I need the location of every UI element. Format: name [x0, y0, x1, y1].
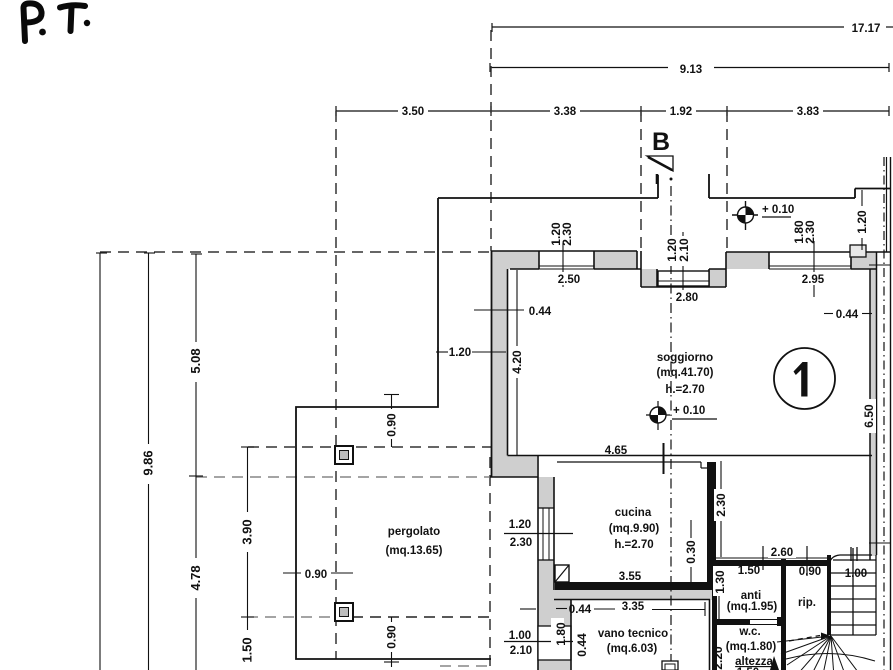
svg-text:1.80: 1.80 — [554, 622, 568, 646]
svg-text:+ 0.10: + 0.10 — [762, 204, 794, 216]
svg-text:0.90: 0.90 — [385, 413, 399, 437]
svg-text:B: B — [652, 128, 670, 156]
svg-text:(mq.13.65): (mq.13.65) — [386, 545, 443, 557]
svg-text:w.c.: w.c. — [738, 626, 760, 638]
svg-text:6.50: 6.50 — [862, 404, 876, 428]
svg-text:1.00: 1.00 — [509, 630, 531, 642]
svg-text:3.38: 3.38 — [554, 106, 577, 118]
svg-text:(mq.6.03): (mq.6.03) — [607, 643, 658, 655]
svg-text:1.50: 1.50 — [240, 637, 255, 662]
svg-text:9.86: 9.86 — [141, 450, 156, 475]
svg-text:soggiorno: soggiorno — [657, 352, 713, 364]
svg-text:(mq.1.95): (mq.1.95) — [727, 601, 778, 613]
svg-text:(mq.9.90): (mq.9.90) — [609, 523, 660, 535]
svg-text:1.50: 1.50 — [738, 565, 760, 577]
svg-text:+ 0.10: + 0.10 — [673, 405, 705, 417]
svg-text:2.10: 2.10 — [677, 238, 691, 262]
svg-text:rip.: rip. — [798, 597, 816, 609]
svg-text:cucina: cucina — [615, 507, 652, 519]
svg-text:0.44: 0.44 — [575, 633, 589, 657]
svg-text:2.60: 2.60 — [771, 547, 793, 559]
svg-text:1.20: 1.20 — [855, 210, 869, 234]
svg-text:3.55: 3.55 — [619, 571, 642, 583]
svg-text:2.50: 2.50 — [558, 274, 580, 286]
svg-text:3.83: 3.83 — [797, 106, 819, 118]
svg-text:17.17: 17.17 — [852, 23, 881, 35]
svg-text:(mq.41.70): (mq.41.70) — [657, 367, 714, 379]
svg-text:3.90: 3.90 — [240, 519, 255, 544]
svg-text:1.92: 1.92 — [670, 106, 692, 118]
svg-text:0.44: 0.44 — [529, 306, 552, 318]
svg-text:h.=2.70: h.=2.70 — [665, 384, 704, 396]
svg-text:2.95: 2.95 — [802, 274, 825, 286]
svg-text:9.13: 9.13 — [680, 64, 702, 76]
svg-text:pergolato: pergolato — [388, 526, 440, 538]
svg-text:2.20: 2.20 — [711, 646, 725, 670]
svg-text:2.30: 2.30 — [560, 222, 574, 246]
svg-text:0.90: 0.90 — [385, 625, 399, 649]
svg-text:1.30: 1.30 — [713, 570, 727, 594]
svg-text:4.78: 4.78 — [188, 565, 203, 590]
svg-text:3.35: 3.35 — [622, 601, 645, 613]
svg-text:0.44: 0.44 — [569, 604, 592, 616]
svg-text:4.65: 4.65 — [605, 445, 628, 457]
svg-text:3.50: 3.50 — [402, 106, 424, 118]
svg-text:2.30: 2.30 — [714, 493, 728, 517]
svg-text:2.10: 2.10 — [510, 645, 532, 657]
svg-text:0.30: 0.30 — [684, 540, 698, 564]
svg-text:2.80: 2.80 — [676, 292, 698, 304]
svg-text:0.44: 0.44 — [836, 309, 859, 321]
svg-text:vano tecnico: vano tecnico — [598, 628, 668, 640]
svg-text:0.90: 0.90 — [799, 566, 821, 578]
svg-text:1.20: 1.20 — [509, 519, 531, 531]
svg-text:1.20: 1.20 — [449, 347, 471, 359]
svg-text:(mq.1.80): (mq.1.80) — [726, 641, 777, 653]
svg-text:2.30: 2.30 — [803, 220, 817, 244]
svg-text:2.30: 2.30 — [510, 537, 532, 549]
svg-text:4.20: 4.20 — [510, 350, 524, 374]
svg-text:1.00: 1.00 — [845, 568, 867, 580]
svg-text:5.08: 5.08 — [188, 348, 203, 373]
svg-text:0.90: 0.90 — [305, 569, 327, 581]
svg-text:h.=2.70: h.=2.70 — [614, 539, 653, 551]
